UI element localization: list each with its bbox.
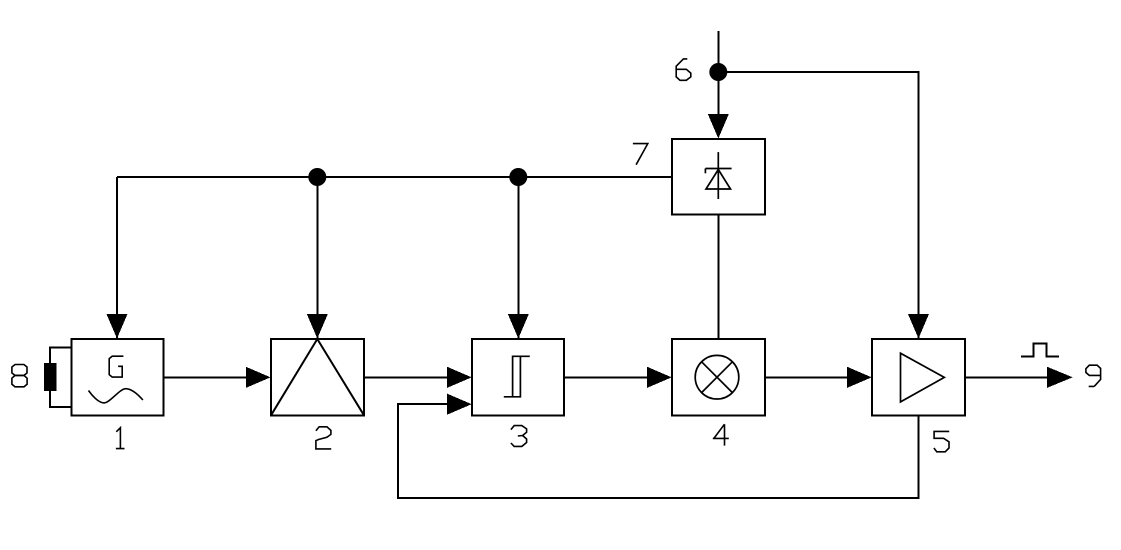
block 2 box (modulator) (271, 339, 364, 415)
mixer circle with X in block 4 (695, 355, 739, 399)
arrow into block 5 left (847, 367, 872, 388)
feedback wire block 5 bottom to block 3 lower input (398, 404, 919, 498)
wire horizontal bus y=177 (117, 176, 672, 178)
G letter in block 1 (109, 356, 123, 377)
arrow into block 3 left upper (447, 367, 472, 388)
wire from node 6 right to above block 5 (718, 72, 918, 116)
wire block 3 to block 4 (564, 376, 649, 378)
arrow into block 1 top (107, 314, 128, 339)
wire block 7 bottom to block 4 top (717, 215, 719, 340)
label 6 (676, 59, 691, 80)
label 3 (511, 426, 527, 447)
arrow into block 5 top (908, 314, 929, 339)
block 5 box (amplifier) (872, 339, 965, 415)
arrow into block 4 left (647, 367, 672, 388)
node 6 junction dot (709, 63, 727, 81)
block 3 box (schmitt trigger) (472, 339, 564, 415)
pulse symbol (1021, 343, 1059, 356)
wire vertical down into block 5 top (918, 116, 920, 338)
node junction dot on bus above block 2 (308, 168, 326, 186)
arrow into block 3 left lower (feedback) (447, 394, 472, 415)
wire drop to block 1 (116, 177, 118, 338)
label 8 (12, 365, 27, 387)
wire block 5 output (965, 376, 1050, 378)
wire block 1 to block 2 (164, 376, 248, 378)
arrow into block 2 top (307, 314, 328, 339)
arrow into block 2 left (246, 367, 271, 388)
block 4 box (mixer) (672, 339, 765, 415)
node junction dot on bus above block 3 (509, 168, 527, 186)
label 1 (116, 428, 125, 449)
zener diode symbol in block 7 (705, 152, 731, 199)
wire drop to block 3 (517, 177, 519, 338)
wire drop to block 2 (316, 177, 318, 338)
label 4 (713, 424, 729, 445)
diagonals in block 2 (271, 339, 364, 415)
connector black plug 8 (44, 363, 57, 391)
label 7 (633, 144, 648, 165)
arrow into block 7 top (708, 114, 729, 139)
hysteresis symbol in block 3 (504, 356, 530, 397)
connector bracket left of block 1 (50, 348, 72, 408)
wire block 4 to block 5 (765, 376, 849, 378)
label 9 (1086, 365, 1101, 386)
sine wave in block 1 (89, 389, 143, 403)
arrow output 9 (1047, 367, 1073, 388)
block 7 box (limiter / zener) (672, 139, 765, 215)
amplifier triangle in block 5 (901, 353, 945, 402)
label 5 (934, 431, 949, 451)
wire top supply vertical into node 6 (717, 31, 719, 116)
block 1 box (oscillator) (72, 339, 164, 415)
arrow into block 3 top (508, 314, 529, 339)
label 2 (316, 427, 331, 449)
wire block 2 to block 3 (364, 376, 449, 378)
